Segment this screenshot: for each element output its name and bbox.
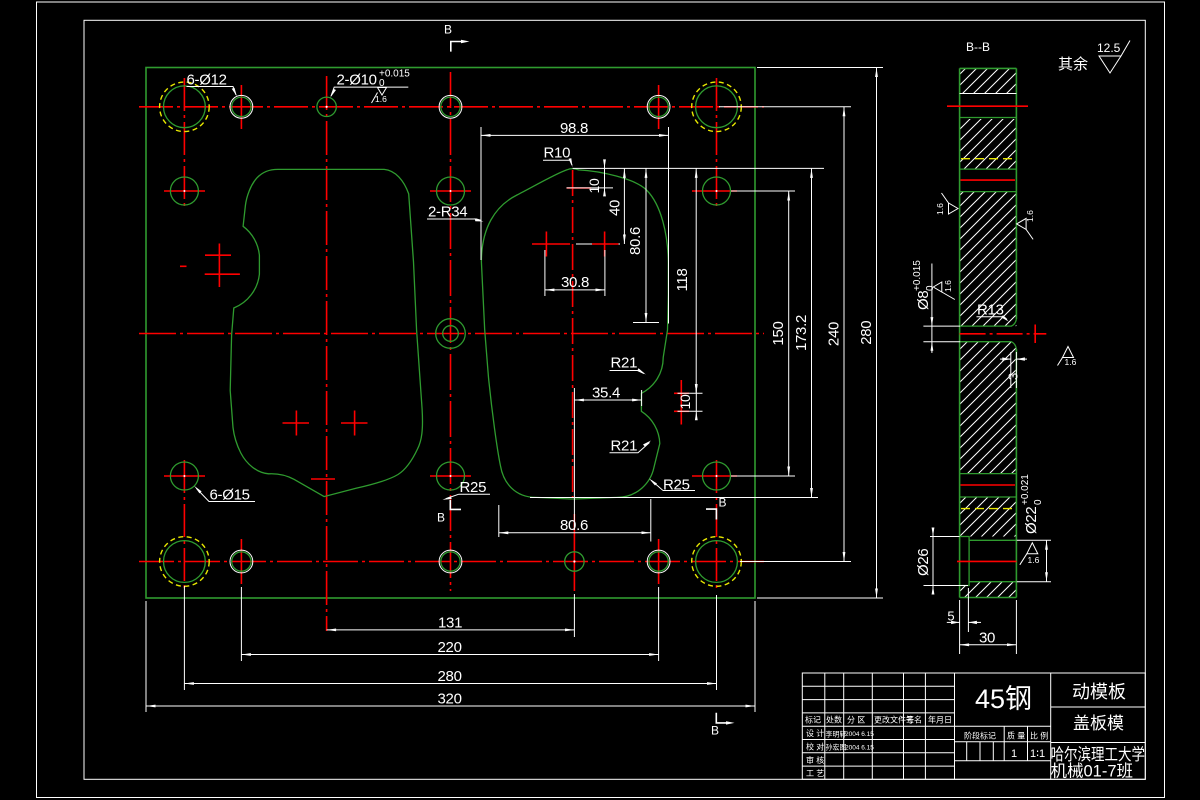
apex reference line [573,167,824,169]
short centerline col6 bottom [658,539,660,584]
right cavity R10 center cross [567,187,592,189]
section mark B top [444,23,470,52]
Ø12 hole (658,561) [647,550,670,573]
svg-text:质 量: 质 量 [1007,731,1025,741]
svg-text:标记: 标记 [805,715,821,725]
centerline row5 [139,561,764,563]
svg-text:280: 280 [438,668,462,685]
left cavity outline (180° rotated copy) [230,169,422,496]
svg-text:B--B: B--B [966,40,990,54]
svg-text:分 区: 分 区 [847,716,865,725]
svg-text:1.6: 1.6 [943,280,953,292]
svg-text:阶段标记: 阶段标记 [964,731,996,741]
Ø8 slot edges with R13 flare [960,319,1017,349]
svg-text:12.5: 12.5 [1097,41,1121,55]
svg-text:1∶1: 1∶1 [1030,748,1045,760]
dim 150 [731,191,795,476]
counterbore outline [960,537,970,586]
Ø10 dowel hole (326,107) [317,97,336,116]
svg-text:240: 240 [826,322,843,346]
section top and bottom edges [960,68,1017,597]
center hole Ø8 with R13 flare [436,319,466,349]
right cavity 30.8 cross right [592,232,619,257]
svg-text:哈尔滨理工大学: 哈尔滨理工大学 [1051,745,1146,764]
dim 40 [607,168,625,244]
crosshair hole (716,476) [692,475,737,477]
svg-text:B: B [444,23,452,37]
svg-text:1.6: 1.6 [375,94,387,104]
svg-text:李明轩: 李明轩 [826,729,847,738]
svg-text:5: 5 [947,608,954,623]
dim 220 [241,587,658,661]
roughness note 其余 [1058,41,1130,74]
right notch centers red vertical [680,380,682,425]
svg-text:R13: R13 [977,302,1004,319]
svg-text:R25: R25 [460,479,487,496]
left cavity bottom cross tick [311,478,335,480]
svg-text:设 计: 设 计 [806,728,824,738]
svg-text:签名: 签名 [906,715,922,725]
svg-text:盖板模: 盖板模 [1073,714,1124,733]
dim 80.6 bottom [499,499,651,542]
big hole Ø22 top-right [696,86,738,128]
svg-text:98.8: 98.8 [560,120,588,137]
section outline left edge [959,68,961,597]
label 2-R34 leader [427,204,484,222]
svg-text:80.6: 80.6 [560,517,588,534]
svg-text:40: 40 [607,200,624,216]
svg-text:B: B [437,511,445,525]
svg-text:处数: 处数 [826,715,842,725]
dim 3 flare [1000,352,1027,388]
hatch band 3 [960,192,1017,327]
label 2-Ø10 leader [330,69,410,105]
hatch band 1 [960,68,1017,93]
Ø15 hole (716,191) [703,177,731,205]
short centerline col5 bottom [573,514,575,591]
dim 10 top [567,159,614,196]
crosshair hole (716,191) [692,190,737,192]
svg-text:其余: 其余 [1058,55,1088,73]
svg-text:2004 6.15: 2004 6.15 [845,731,874,738]
left notch centers red vertical [218,244,220,288]
roughness mark floating right [1058,347,1077,368]
yellow hidden line lower [961,508,1015,510]
title block middle cells [955,673,1051,779]
svg-text:Ø22: Ø22 [1023,507,1040,534]
Ø12 hole (450,561) [439,550,462,573]
roughness marks left edge [935,193,958,215]
right cavity 30.8 cross left [532,232,570,257]
dim 10 notch [677,384,703,420]
svg-text:R21: R21 [611,355,638,372]
dim 35.4 [574,385,641,531]
label Ø8 tolerance [912,260,936,310]
roughness mark right edge [1017,210,1035,239]
section mark B bottom [711,713,735,738]
svg-text:R10: R10 [544,145,571,162]
svg-text:150: 150 [770,321,787,345]
centerline center col vertical [450,72,452,591]
counterbore Ø26 dashed top-left [160,82,210,132]
svg-text:1.6: 1.6 [1065,357,1077,367]
Ø12 hole (241,107) [230,95,253,118]
centerline row1 [139,106,764,108]
svg-text:6-Ø15: 6-Ø15 [210,487,250,504]
section centerline row1 [947,105,1028,107]
big hole Ø22 bottom-left [164,541,206,583]
label Ø22 tolerance [1020,474,1044,534]
section face line white [960,93,1017,95]
section centerline Ø22 [957,560,1017,562]
Ø22 dim lines [1017,540,1051,581]
dim 5 counterbore [947,588,981,654]
crosshair hole (450,476) [430,475,471,477]
counterbore Ø26 dashed bottom-left [160,537,210,587]
left notch center ticks red [205,255,240,274]
svg-text:45钢: 45钢 [975,684,1032,714]
svg-text:工 艺: 工 艺 [806,769,824,778]
short centerline col6 top [658,85,660,129]
section Ø8 axis cross [1034,325,1036,344]
section red line row2 [961,179,1016,181]
hatch band 6 [969,582,1016,598]
centerline col 2-Ø10 vertical [326,76,328,631]
dim 30 thickness [960,600,1017,654]
svg-text:1.6: 1.6 [1025,210,1035,222]
svg-text:30: 30 [979,630,995,647]
dim 240 [719,107,851,562]
svg-text:B: B [719,496,727,510]
Ø10 dowel hole (574,561) [565,552,584,571]
left cavity 30.8 cross left [283,411,310,436]
svg-text:R21: R21 [611,438,638,455]
dim 118 [674,168,703,393]
Ø8 dim lines [923,264,960,353]
svg-text:2004 6.15: 2004 6.15 [845,744,874,751]
Ø15 hole (716,476) [703,462,731,490]
short centerline col2 top [240,85,242,129]
label R10 leader [543,145,573,168]
svg-text:2-R34: 2-R34 [428,204,467,221]
crosshair hole (184,476) [164,475,205,477]
hatch band 5 [960,497,1017,537]
section hole lines green [960,118,1017,498]
Ø26 dim lines [924,528,969,595]
svg-text:孙宏图: 孙宏图 [826,743,847,752]
plate outline [146,68,755,599]
center dot Ø10 bottom [573,560,575,562]
Ø15 hole (450,476) [437,462,465,490]
right cavity outline [481,169,668,499]
hatch band 2 [960,119,1017,169]
roughness mark at Ø22 [1020,543,1040,565]
section centerline Ø8 [960,333,1047,335]
svg-text:80.6: 80.6 [627,227,644,255]
Ø15 hole (184,476) [170,462,198,490]
short centerline col2 bottom [240,539,242,584]
svg-text:1.6: 1.6 [935,203,945,215]
section red line row4 [961,484,1016,486]
dim 80.6 vertical [627,168,659,322]
dim 280 right [757,68,883,599]
centerline col1 vertical bottom [183,460,185,591]
white tick at y244 [576,243,620,245]
right notch center ticks red [674,393,689,411]
centerline col7 vertical bottom [716,460,718,591]
svg-text:+0.021: +0.021 [1020,474,1031,505]
roughness mark at Ø8 [933,280,955,300]
svg-text:2-Ø10: 2-Ø10 [337,72,377,89]
yellow hidden line upper [961,158,1015,160]
svg-text:+0.015: +0.015 [912,260,923,291]
svg-text:B: B [711,724,719,738]
cavity bottom reference line [530,497,818,499]
Ø15 hole (184,191) [170,177,198,205]
left cavity 30.8 cross right [341,411,368,436]
title block left grid vertical lines [825,673,955,779]
label 6-Ø15 leader [194,486,255,504]
big hole Ø22 bottom-right [696,541,738,583]
big hole Ø22 top-left [164,86,206,128]
svg-text:Ø26: Ø26 [915,549,932,576]
dim 98.8 [481,120,669,324]
counterbore Ø26 dashed bottom-right [692,537,742,587]
label R21 lower leader [610,438,652,455]
svg-text:6-Ø12: 6-Ø12 [187,72,227,89]
hatch band 7 [960,586,970,598]
svg-text:1.6: 1.6 [1028,555,1040,565]
svg-text:280: 280 [858,321,875,345]
svg-text:1: 1 [1011,748,1017,760]
svg-text:比 例: 比 例 [1030,731,1048,741]
hatch band 4 [960,342,1017,474]
svg-text:年月日: 年月日 [928,715,952,725]
svg-text:0: 0 [1033,499,1044,505]
section mark corner left [450,500,461,509]
svg-text:131: 131 [438,615,462,632]
Ø12 hole (450,107) [439,95,462,118]
crosshair hole (450,191) [430,190,471,192]
centerline mid horizontal [139,333,764,335]
svg-text:35.4: 35.4 [592,385,620,402]
svg-text:10: 10 [586,178,602,193]
label R25 right leader [649,477,695,494]
Ø12 hole (241,561) [230,550,253,573]
label R13 leader [977,302,1009,322]
svg-text:机械01-7班: 机械01-7班 [1051,762,1134,781]
dim 131 [327,594,575,637]
svg-text:173.2: 173.2 [793,315,810,351]
svg-text:动模板: 动模板 [1072,682,1126,702]
dim 280 bottom [184,586,716,690]
center dot Ø10 top [326,106,328,108]
dim 173.2 [793,168,812,497]
svg-text:审 核: 审 核 [806,755,824,765]
roughness mark under 2-Ø10 [378,88,387,96]
dim 320 [146,601,755,712]
label 6-Ø12 leader [187,72,237,97]
svg-text:30.8: 30.8 [561,274,589,291]
left small red dash [180,265,187,267]
Ø15 hole (450,191) [437,177,465,205]
right cavity vertical centerline [572,170,574,497]
title block left grid horizontal lines [802,686,954,766]
title block right cells [1051,707,1146,743]
dim 30.8 [545,250,605,296]
label R25 left leader [443,479,491,500]
svg-text:10: 10 [677,394,693,409]
title block outline [802,673,1145,779]
label R21 upper leader [610,355,646,375]
svg-text:320: 320 [438,691,462,708]
svg-text:118: 118 [674,268,691,291]
centerline col7 vertical top [716,78,718,210]
section mark corner right [706,509,716,519]
svg-text:3: 3 [1006,373,1021,380]
crosshair hole (184,191) [164,190,205,192]
svg-text:Ø8: Ø8 [915,291,932,310]
Ø22 hole outline [969,540,1016,581]
center dots Ø15 holes [183,190,717,477]
svg-text:校 对: 校 对 [806,742,824,752]
centerline col1 vertical top [183,78,185,210]
header row tiny labels [805,715,1048,778]
section outline right edge [1015,68,1017,597]
Ø12 hole (658,107) [647,95,670,118]
counterbore Ø26 dashed top-right [692,82,742,132]
svg-text:220: 220 [438,639,462,656]
